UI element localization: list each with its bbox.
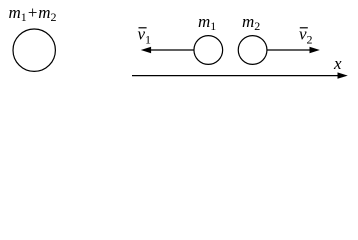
- svg-text:m2: m2: [242, 12, 260, 33]
- mass ball m1+m2: [13, 29, 55, 71]
- arrow v1 head: [141, 47, 151, 53]
- vector v2 bar: [300, 27, 308, 29]
- arrow v2 head: [310, 47, 320, 53]
- mass ball m2: [238, 36, 267, 65]
- mass ball m1: [194, 36, 223, 65]
- x axis arrow head: [338, 72, 348, 78]
- svg-text:m1: m1: [198, 12, 216, 33]
- x axis line: [132, 75, 339, 77]
- svg-text:v2: v2: [299, 25, 313, 47]
- svg-text:m1+m2: m1+m2: [9, 3, 57, 24]
- vector v1 bar: [139, 27, 147, 29]
- arrow v2 line: [267, 49, 310, 51]
- arrow v1 line: [151, 49, 194, 51]
- svg-text:v1: v1: [138, 25, 152, 47]
- svg-text:x: x: [333, 54, 342, 73]
